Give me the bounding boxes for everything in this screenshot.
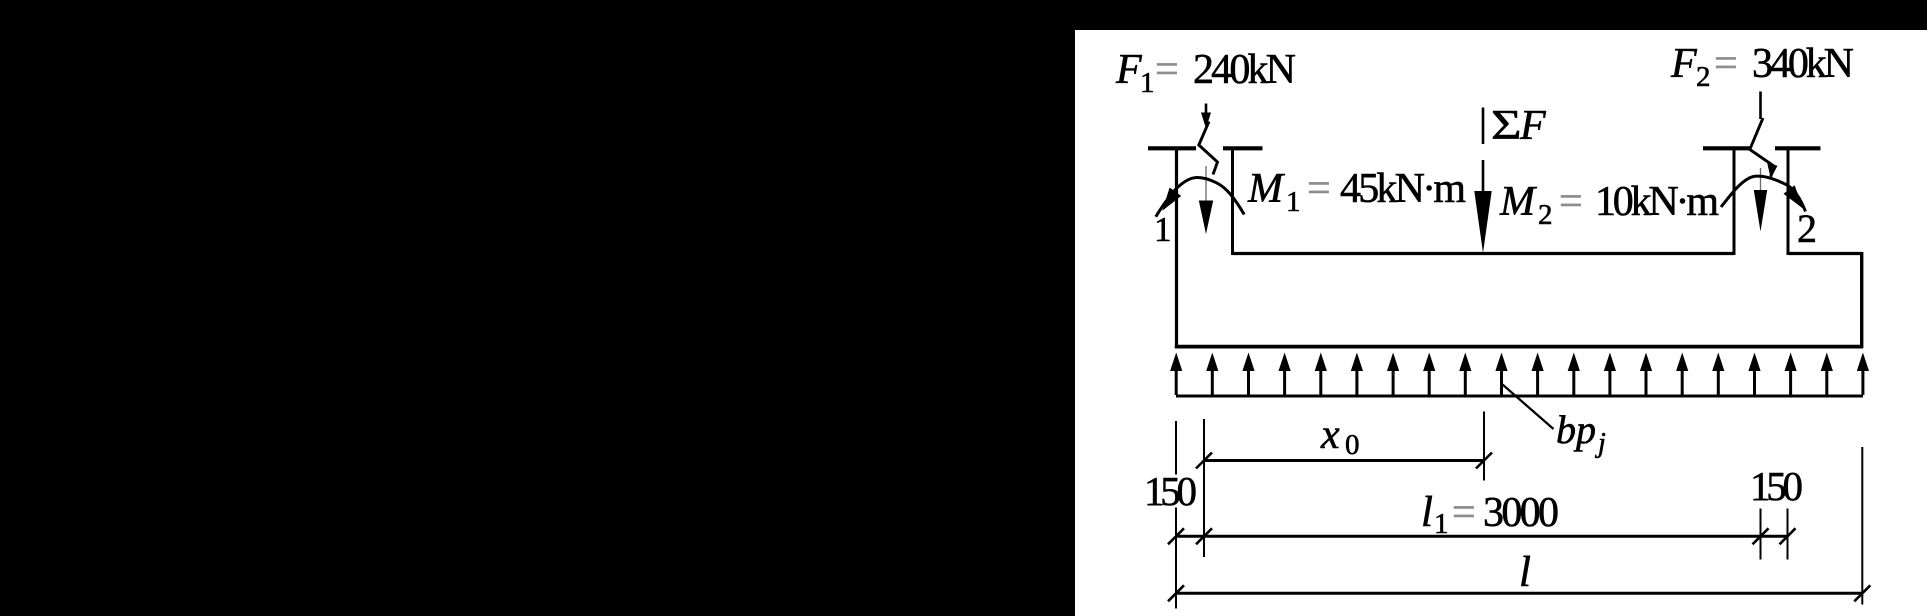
beam top right of column 2 — [1788, 252, 1862, 255]
column 2 cap left segment — [1703, 146, 1750, 150]
svg-text:1: 1 — [1286, 186, 1301, 218]
extension line at right edge — [1861, 447, 1863, 605]
svg-text:=: = — [1559, 179, 1583, 225]
svg-text:M: M — [1247, 166, 1285, 212]
svg-text:2: 2 — [1696, 61, 1711, 93]
label M1 = 45kN.m — [1247, 166, 1466, 218]
force F1 line upper — [1205, 104, 1208, 122]
force F2 break arrowhead — [1767, 164, 1777, 179]
label M2 = 10kN.m — [1499, 179, 1719, 231]
svg-text:150: 150 — [1750, 463, 1803, 509]
resultant SigmaF line upper — [1482, 108, 1485, 145]
column 1 right side — [1231, 147, 1234, 255]
column 2 left side — [1733, 147, 1736, 255]
label bpj — [1556, 407, 1606, 459]
svg-text:2: 2 — [1538, 199, 1553, 231]
label x0 — [1320, 412, 1360, 461]
svg-text:Σ: Σ — [1491, 103, 1522, 149]
force F1 break zigzag — [1199, 122, 1218, 175]
resultant SigmaF spike arrowhead — [1474, 191, 1491, 253]
leader line to bpj — [1503, 385, 1554, 430]
column 2 right side — [1787, 147, 1790, 255]
label F2 = 340kN — [1670, 41, 1854, 93]
svg-text:150: 150 — [1144, 468, 1197, 514]
extension line at column 2 axis — [1760, 509, 1762, 560]
extension line at column 2 face — [1787, 509, 1789, 560]
soil pressure baseline — [1176, 395, 1863, 398]
svg-text:1: 1 — [1140, 67, 1155, 99]
moment M1 arrowhead — [1162, 188, 1181, 211]
beam top between columns — [1233, 252, 1735, 255]
svg-text:F: F — [1115, 47, 1142, 93]
svg-text:x: x — [1320, 412, 1340, 458]
foundation bottom — [1175, 345, 1863, 349]
dimension line x0 — [1204, 459, 1484, 462]
column 2 cap right segment — [1775, 146, 1821, 150]
force F2 break zigzag — [1750, 118, 1774, 177]
force F2 spike arrowhead — [1754, 190, 1767, 232]
moment M2 arrowhead — [1784, 185, 1804, 209]
extension line at x0 end — [1483, 412, 1485, 481]
column 1 cap left segment — [1148, 146, 1196, 150]
extension line at column 1 axis — [1203, 419, 1205, 557]
svg-text:=: = — [1452, 490, 1476, 536]
svg-text:=: = — [1714, 41, 1738, 87]
moment M1 arc — [1156, 178, 1244, 217]
resultant SigmaF line lower — [1482, 160, 1485, 192]
column 1 cap right segment — [1223, 146, 1263, 150]
svg-text:2: 2 — [1797, 206, 1817, 251]
svg-text:l: l — [1519, 549, 1531, 596]
svg-text:45kN·m: 45kN·m — [1340, 166, 1466, 212]
svg-text:=: = — [1155, 47, 1179, 93]
force F1 spike arrowhead — [1199, 201, 1213, 235]
force F1 break arrowhead — [1201, 113, 1211, 129]
label F1 = 240kN — [1115, 47, 1296, 99]
force F2 line upper — [1759, 92, 1762, 120]
svg-text:0: 0 — [1345, 429, 1360, 461]
force F2 thin lower line — [1760, 168, 1762, 191]
svg-text:F: F — [1519, 103, 1546, 149]
label l1 = 3000 — [1421, 489, 1559, 540]
svg-text:F: F — [1670, 41, 1697, 87]
svg-text:1: 1 — [1154, 210, 1172, 249]
dimension ticks — [1168, 453, 1870, 602]
svg-text:1: 1 — [1434, 508, 1449, 540]
moment M2 arc — [1721, 176, 1806, 211]
label SigmaF — [1491, 103, 1546, 149]
svg-text:340kN: 340kN — [1752, 41, 1854, 87]
extension line at left edge — [1175, 421, 1177, 475]
dimension line l — [1176, 592, 1862, 595]
dimension line l1 chain — [1176, 535, 1788, 538]
white figure panel — [1075, 30, 1927, 616]
svg-text:=: = — [1307, 166, 1331, 212]
soil pressure arrows — [1170, 353, 1869, 396]
svg-text:240kN: 240kN — [1193, 47, 1296, 93]
svg-text:bp: bp — [1556, 407, 1596, 452]
svg-text:l: l — [1421, 489, 1433, 536]
force F1 thin lower line — [1205, 166, 1207, 201]
foundation right edge — [1860, 252, 1863, 348]
foundation left edge — [1175, 147, 1178, 348]
svg-text:10kN·m: 10kN·m — [1595, 179, 1719, 225]
svg-text:M: M — [1499, 179, 1537, 225]
svg-text:3000: 3000 — [1483, 490, 1559, 536]
